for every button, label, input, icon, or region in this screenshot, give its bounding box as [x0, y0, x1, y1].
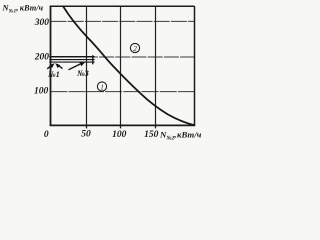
- svg-text:150: 150: [144, 130, 159, 140]
- busbar end tick: [92, 55, 94, 64]
- svg-text:50: 50: [81, 130, 91, 140]
- generator arrow no.1 right: [55, 63, 62, 69]
- busbar line top: [49, 56, 94, 58]
- svg-text:300: 300: [34, 18, 50, 28]
- horizontal gridline 100: [51, 91, 195, 93]
- paper background: [0, 0, 203, 144]
- y-axis: [50, 6, 52, 127]
- busbar line bottom: [49, 61, 94, 63]
- x-axis tick 150: [155, 125, 157, 128]
- svg-text:№3: №3: [76, 69, 89, 78]
- generator arrow no.3: [69, 62, 86, 70]
- region circle 1: [97, 82, 106, 91]
- svg-text:2: 2: [133, 45, 137, 53]
- x-axis: [50, 124, 196, 126]
- svg-text:№1: №1: [47, 70, 60, 79]
- plot frame top border: [51, 5, 195, 7]
- load-limit curve: [63, 6, 195, 125]
- svg-text:1: 1: [100, 83, 104, 91]
- svg-text:200: 200: [34, 52, 50, 62]
- region circle 2: [130, 43, 139, 52]
- generator arrow no.1 left: [47, 63, 54, 69]
- svg-text:100: 100: [112, 130, 127, 140]
- horizontal gridline 300: [51, 20, 195, 22]
- vertical gridline 50: [86, 6, 88, 125]
- horizontal gridline 200: [51, 56, 195, 58]
- x-axis tick 100: [120, 125, 122, 128]
- vertical gridline 150: [155, 6, 157, 125]
- busbar line middle: [49, 59, 94, 61]
- x-axis tick 50: [86, 125, 88, 128]
- plot frame right border: [194, 6, 196, 125]
- vertical gridline 100: [120, 6, 122, 125]
- svg-text:0: 0: [44, 130, 49, 140]
- svg-text:100: 100: [34, 87, 49, 97]
